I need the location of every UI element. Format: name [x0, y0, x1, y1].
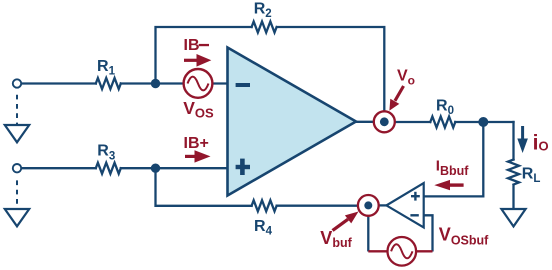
svg-text:R2: R2 [254, 0, 272, 20]
svg-text:VOS: VOS [183, 98, 214, 121]
svg-text:R3: R3 [97, 143, 115, 163]
svg-text:iO: iO [533, 132, 549, 155]
svg-text:IB+: IB+ [184, 135, 209, 152]
svg-text:RL: RL [522, 166, 541, 185]
svg-text:IBbuf: IBbuf [436, 157, 469, 178]
svg-text:IB: IB [184, 37, 200, 54]
svg-text:VOSbuf: VOSbuf [439, 225, 489, 248]
svg-text:Vbuf: Vbuf [320, 228, 352, 250]
svg-text:R1: R1 [97, 58, 116, 78]
svg-text:Vo: Vo [397, 67, 415, 87]
svg-text:R4: R4 [254, 218, 273, 238]
svg-text:R0: R0 [436, 98, 454, 118]
